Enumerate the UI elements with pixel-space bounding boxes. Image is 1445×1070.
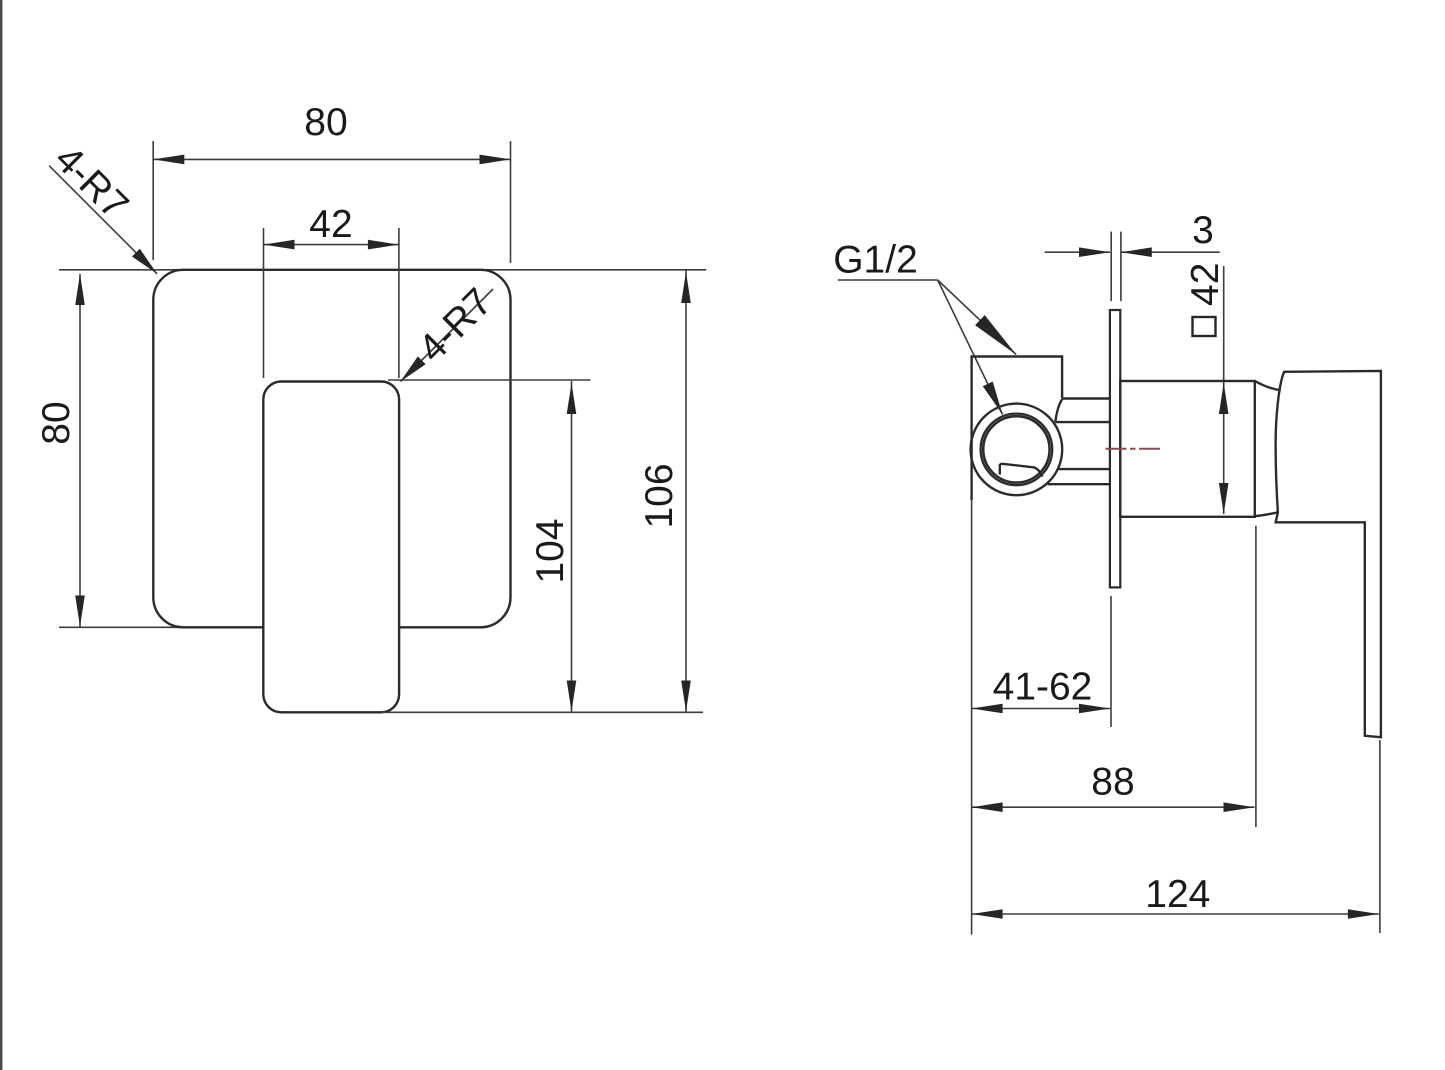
inlet ring outer (981, 414, 1053, 486)
svg-text:104: 104 (529, 518, 572, 583)
svg-text:124: 124 (1145, 873, 1210, 916)
wall plate front view (rounded square) (153, 270, 510, 628)
handle top extension line (for 104 dim) (388, 379, 591, 381)
label square-42 (cartridge housing size) (1184, 263, 1229, 514)
svg-text:42: 42 (1184, 263, 1227, 306)
wall plate side view (thin bar) (1110, 310, 1120, 587)
extension line at housing right (for 88) (1255, 526, 1257, 827)
dimension 124 (972, 873, 1379, 919)
cartridge housing behind handle (1120, 381, 1255, 517)
dimension 80 (plate height, left) (35, 274, 85, 627)
G1/2 inlet outer circle (971, 404, 1063, 496)
dimension 80 (top width) (153, 101, 510, 263)
valve body block (972, 357, 1063, 501)
svg-text:80: 80 (304, 101, 347, 144)
dimension 41-62 (wall to plate) (972, 666, 1110, 714)
inlet ring inner (983, 416, 1049, 482)
svg-text:80: 80 (35, 401, 78, 444)
dimension 104 (handle height) (529, 381, 576, 712)
body left edge extension line (down to 124 dim) (971, 500, 973, 935)
svg-text:G1/2: G1/2 (833, 239, 918, 282)
svg-text:106: 106 (638, 463, 681, 528)
waterway lip inside inlet (1000, 464, 1043, 477)
top construction line through plate top edge (59, 269, 706, 271)
dimension 3 (plate thickness) (1045, 209, 1220, 301)
plate bottom extension line (to left of plate) (59, 626, 185, 628)
neck bottom curve (1255, 512, 1278, 516)
svg-text:3: 3 (1192, 209, 1214, 252)
label 4-R7 (handle corner radius) with leader (401, 280, 501, 381)
neck top curve (1255, 381, 1281, 390)
handle side view (lever) (1276, 371, 1381, 737)
handle front view (rounded rect, drawn over plate) (263, 382, 399, 713)
svg-text:41-62: 41-62 (993, 666, 1093, 709)
label 4-R7 (plate corner radius) with leader (46, 137, 157, 273)
dimension 42 (handle width) (264, 203, 399, 378)
handle bottom extension line (for 104/106 dims) (382, 711, 703, 713)
svg-text:88: 88 (1091, 761, 1134, 804)
plate bottom extension line (below side plate) (1110, 596, 1112, 727)
pipe connection lines body to wall plate (1062, 397, 1110, 399)
svg-text:42: 42 (309, 203, 352, 246)
dimension 106 (overall height) (638, 271, 691, 712)
label G1/2 with underline and two leaders (833, 239, 1016, 415)
dimension 88 (972, 761, 1255, 813)
red dashed centerline (1106, 448, 1162, 450)
body shoulder fillet curve (1055, 399, 1062, 422)
extension line at handle right (for 124) (1379, 740, 1381, 933)
scan border line left edge (0, 0, 2, 1070)
